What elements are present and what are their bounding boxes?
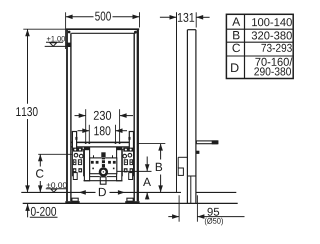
- frame top bar outer edge: [66, 28, 139, 30]
- frame left rail: [67, 29, 71, 201]
- dimension 230: [75, 109, 134, 143]
- crossbar bolt dots right: [115, 142, 121, 144]
- side view rail: [187, 30, 196, 204]
- dimension 0-200 adjustable feet: [25, 204, 57, 217]
- dimension 1130 height: [16, 29, 66, 192]
- side view water pipe: [196, 140, 218, 144]
- side view front plane line: [176, 12, 178, 192]
- raw floor line: [23, 202, 238, 204]
- dimension A: [143, 157, 151, 200]
- side view foot tube: [187, 176, 196, 203]
- side view nub: [196, 151, 199, 154]
- central mounting plate: [90, 155, 152, 176]
- crossbar upper edge: [71, 141, 134, 143]
- table row A: [232, 18, 292, 27]
- slotted upright right: [128, 132, 133, 150]
- table row B: [233, 31, 292, 39]
- dimension D: [79, 188, 125, 196]
- dimension 131: [160, 12, 210, 27]
- joint dot top-right: [134, 31, 137, 34]
- side view bidet bracket: [178, 157, 187, 175]
- dimension C: [36, 154, 72, 192]
- frame top bar inner edge: [71, 32, 134, 34]
- crossbar lower edge: [71, 146, 134, 148]
- drain pipe below: [100, 177, 106, 184]
- dimension B: [138, 144, 165, 193]
- dimension 95 with diameter 50: [168, 195, 244, 225]
- rail mark at +1.00: [66, 43, 71, 47]
- frame right rail: [134, 29, 138, 201]
- finished floor line: [21, 191, 236, 193]
- table row D: [231, 57, 292, 75]
- left strut: [84, 148, 89, 181]
- drain fitting with outlet circle: [99, 152, 108, 176]
- right strut: [117, 148, 122, 181]
- +1.00 datum symbol: [45, 36, 67, 46]
- joint dot top-left: [68, 31, 71, 34]
- left foot: [65, 198, 79, 203]
- table grid: [226, 14, 293, 78]
- dimension 180: [78, 125, 128, 143]
- crossbar bolt dots left: [85, 142, 91, 144]
- slotted upright left: [72, 132, 77, 150]
- right foot: [125, 198, 139, 203]
- plus-minus 0.00 datum symbol: [46, 182, 68, 192]
- dimension 500 top width: [66, 12, 140, 49]
- table row C: [232, 44, 291, 53]
- left bracket assembly: [72, 148, 83, 180]
- right bracket assembly: [122, 148, 133, 180]
- assembly bottom line: [84, 180, 123, 182]
